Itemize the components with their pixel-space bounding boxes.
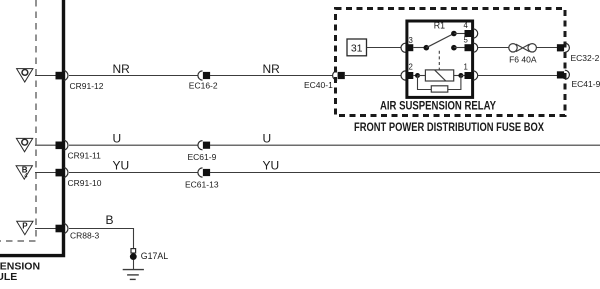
switch blade (closed to pin 4) (426, 34, 454, 48)
connector EC41-9 (square + arc on dashed border) (557, 70, 600, 89)
connector EC40-1 at fuse box border (arc + square) (304, 71, 345, 90)
wire pin2 to coil node (413, 75, 417, 77)
wire fuse to EC32-2 (536, 47, 557, 49)
ground stud eyelet (square) (131, 249, 136, 253)
relay R1 box (407, 21, 473, 97)
svg-text:3: 3 (409, 36, 413, 45)
off-page triangle ref 1 (circle) (17, 69, 33, 82)
svg-text:CR91-12: CR91-12 (70, 81, 104, 91)
coil node dot (right) (458, 73, 463, 78)
connector CR91-11 (square + arc) (56, 140, 102, 161)
wire row1 NR: triangle to CR91-12 (35, 75, 56, 77)
wire row1 NR: EC16-2 to EC40-1 (210, 75, 333, 77)
connector CR91-10 (square + arc) (56, 167, 102, 188)
connector CR91-12 (square + arc) (56, 70, 104, 91)
switch fixed contact dot pin5 side (451, 45, 457, 51)
svg-text:EC61-13: EC61-13 (185, 180, 219, 190)
svg-text:5: 5 (464, 35, 469, 44)
resistor branch (parallel with coil) (418, 76, 461, 90)
wire row2 U: triangle to CR91-11 (35, 144, 56, 146)
wire node to coil (418, 75, 426, 77)
switch common node dot (424, 45, 430, 51)
wire EC40-1 to relay pin 2 (345, 75, 401, 77)
svg-text:MODULE: MODULE (0, 271, 17, 283)
wire stud to ground bars (133, 260, 135, 270)
svg-text:EC41-9: EC41-9 (572, 79, 600, 89)
svg-text:NR: NR (113, 62, 131, 76)
svg-text:YU: YU (263, 159, 280, 173)
connector EC16-2 (arc + square) (189, 71, 218, 90)
svg-text:F6 40A: F6 40A (509, 54, 537, 64)
wire coil to node (right) (454, 75, 461, 77)
wire row2 U: CR91-11 to EC61-9 (69, 144, 198, 146)
relay pin 4 terminal (square + arc) (464, 21, 478, 38)
harness dashed boundary (gray dashed line, vertical + corner to left edge) (0, 0, 36, 241)
wire row2 U: EC61-9 to right edge (210, 144, 600, 146)
relay coil (rectangle with diagonal) (425, 70, 453, 81)
svg-text:P: P (22, 221, 28, 230)
front power distribution fuse box (dashed rectangle) (336, 9, 566, 116)
svg-text:U: U (113, 132, 122, 146)
connector EC61-13 (arc + square) (185, 168, 219, 190)
wire row3 YU: CR91-10 to EC61-13 (69, 172, 198, 174)
wire row4 B: CR88-3 to ground drop (69, 229, 134, 249)
svg-text:R1: R1 (434, 21, 445, 31)
relay pin 3 terminal (arc + square) (401, 36, 413, 52)
svg-text:1: 1 (464, 63, 468, 72)
wire row4 B: triangle to CR88-3 (35, 228, 56, 230)
svg-text:YU: YU (113, 159, 130, 173)
relay pin 5 terminal (square + arc) (464, 35, 478, 52)
svg-text:CR88-3: CR88-3 (70, 231, 100, 241)
svg-text:NR: NR (263, 62, 281, 76)
svg-text:EC32-2: EC32-2 (571, 53, 600, 63)
svg-text:CR91-11: CR91-11 (68, 151, 102, 161)
relay actuator dashed link (438, 51, 440, 70)
svg-text:B: B (106, 213, 114, 227)
svg-text:EC40-1: EC40-1 (304, 80, 333, 90)
wire pin3 to switch common (413, 47, 426, 49)
coil node dot (left) (415, 73, 420, 78)
wire dot to pin 4 (454, 33, 465, 35)
svg-text:EC61-9: EC61-9 (188, 152, 217, 162)
module label: AIR SUSPENSION MODULE (clipped at left edge) (0, 260, 40, 283)
ground stud (filled circle) (130, 253, 137, 260)
connector CR88-3 (square + arc) (56, 223, 100, 240)
wire pin5 to fuse F6 (478, 47, 509, 49)
node 31 feed box (347, 39, 367, 56)
off-page triangle ref 3 (letter B over 4) (16, 166, 32, 179)
off-page triangle ref 4 (letter P) (17, 221, 33, 234)
wire row1 NR: CR91-12 to EC16-2 (69, 75, 198, 77)
svg-text:FRONT POWER DISTRIBUTION FUSE: FRONT POWER DISTRIBUTION FUSE BOX (354, 120, 544, 134)
connector EC32-2 (square + arc on dashed border) (557, 43, 600, 63)
svg-text:EC16-2: EC16-2 (189, 80, 218, 90)
svg-text:31: 31 (351, 42, 363, 54)
svg-text:CR91-10: CR91-10 (68, 178, 102, 188)
wire row3 YU: EC61-13 to right edge (210, 172, 600, 174)
wire dot to pin 5 (454, 47, 465, 49)
wire relay pin1 to EC41-9 (478, 75, 557, 77)
ground symbol bars (123, 270, 144, 280)
switch contact dot pin4 side (451, 31, 457, 37)
off-page triangle ref 2 (circle) (16, 138, 32, 151)
connector EC61-9 (arc + square) (188, 141, 217, 162)
relay pin 2 terminal (arc + square) (401, 63, 413, 81)
wire row3 YU: triangle to CR91-10 (35, 172, 56, 174)
svg-text:G17AL: G17AL (141, 251, 168, 261)
relay pin 1 terminal (square + arc) (464, 63, 478, 81)
svg-text:U: U (263, 132, 272, 146)
air suspension module outline (thick corner line) (0, 0, 64, 256)
fuse F6 40A (two circles with crossed lines) (509, 44, 537, 52)
svg-text:2: 2 (409, 63, 413, 72)
wire node to pin 1 (461, 75, 465, 77)
resistor element (431, 86, 448, 92)
svg-text:AIR SUSPENSION RELAY: AIR SUSPENSION RELAY (380, 98, 496, 112)
svg-text:4: 4 (464, 21, 469, 30)
wire 31 box to relay pin 3 (367, 47, 402, 49)
